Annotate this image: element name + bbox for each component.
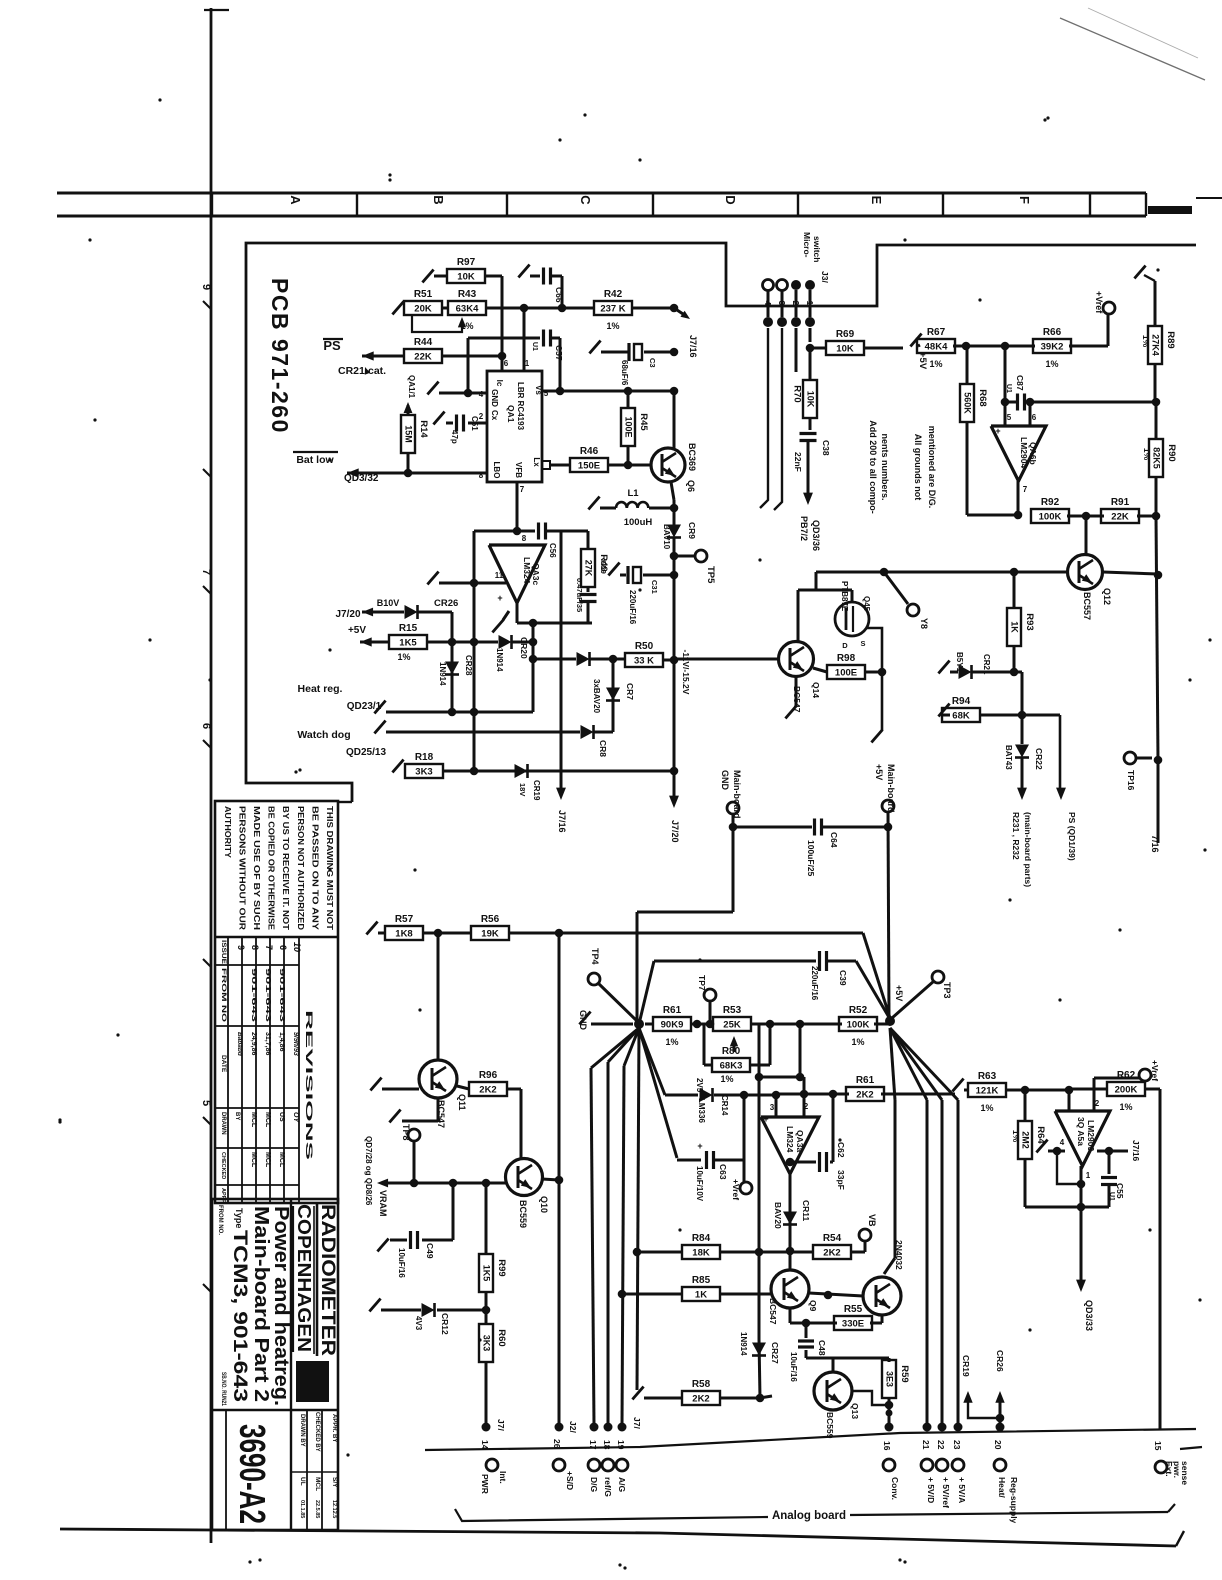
svg-text:QA3a: QA3a — [795, 1130, 805, 1152]
svg-text:901-643: 901-643 — [278, 968, 285, 1022]
svg-text:CR9: CR9 — [687, 522, 697, 539]
svg-text:Bababd: Bababd — [236, 1032, 243, 1057]
svg-text:R96: R96 — [479, 1070, 498, 1081]
svg-text:BC557: BC557 — [1082, 592, 1092, 620]
svg-text:Heat/: Heat/ — [997, 1477, 1007, 1498]
svg-text:S/Y: S/Y — [331, 1477, 338, 1488]
svg-text:Ic: Ic — [495, 380, 504, 387]
svg-text:23: 23 — [952, 1440, 962, 1450]
svg-text:10uF/16: 10uF/16 — [397, 1248, 406, 1278]
svg-text:2: 2 — [1095, 1099, 1100, 1108]
svg-text:MCL: MCL — [264, 1112, 271, 1128]
svg-text:J7/16: J7/16 — [557, 810, 567, 833]
svg-text:100K: 100K — [1039, 512, 1062, 523]
svg-text:C38: C38 — [821, 440, 831, 456]
svg-text:R67: R67 — [927, 327, 946, 338]
svg-text:MADE USE OF BY SUCH: MADE USE OF BY SUCH — [252, 806, 261, 930]
svg-text:nents numbers.: nents numbers. — [880, 433, 890, 500]
svg-text:J2/: J2/ — [568, 1421, 578, 1433]
svg-text:17: 17 — [588, 1440, 598, 1450]
svg-text:25K: 25K — [723, 1020, 741, 1031]
svg-text:C3: C3 — [648, 358, 657, 368]
svg-text:48K4: 48K4 — [925, 342, 948, 353]
svg-text:1K5: 1K5 — [482, 1265, 492, 1282]
svg-text:BAV10: BAV10 — [662, 524, 671, 550]
svg-text:TP3: TP3 — [942, 982, 952, 999]
svg-text:1%: 1% — [980, 1103, 993, 1113]
svg-text:CR20: CR20 — [519, 637, 529, 659]
svg-text:+S/D: +S/D — [565, 1471, 575, 1490]
svg-text:R63: R63 — [978, 1071, 997, 1082]
svg-text:+ 5V/D: + 5V/D — [926, 1477, 936, 1503]
svg-text:C87: C87 — [1015, 375, 1025, 391]
svg-text:68uF/6: 68uF/6 — [620, 360, 629, 386]
svg-text:TP4: TP4 — [590, 948, 600, 965]
svg-text:+5V: +5V — [917, 352, 928, 370]
svg-text:1%: 1% — [1119, 1102, 1132, 1112]
svg-text:10: 10 — [292, 942, 302, 952]
svg-text:Q6: Q6 — [686, 480, 696, 492]
svg-text:mentioned are D/G.: mentioned are D/G. — [927, 426, 937, 509]
svg-text:R61: R61 — [663, 1005, 682, 1016]
svg-text:3xBAV20: 3xBAV20 — [592, 679, 601, 714]
svg-text:10K: 10K — [457, 272, 475, 283]
svg-text:10uF/10V: 10uF/10V — [695, 1166, 704, 1202]
svg-text:19K: 19K — [481, 929, 499, 940]
svg-text:MCL: MCL — [278, 1152, 285, 1168]
svg-text:U1: U1 — [1108, 1192, 1115, 1201]
svg-text:10K: 10K — [836, 344, 854, 355]
svg-text:Q9: Q9 — [808, 1300, 818, 1312]
svg-text:C49: C49 — [425, 1243, 435, 1259]
svg-text:C55: C55 — [1115, 1183, 1125, 1199]
svg-text:C63: C63 — [718, 1164, 728, 1180]
svg-text:All grounds not: All grounds not — [913, 434, 923, 501]
svg-text:ISSUE: ISSUE — [220, 940, 227, 965]
svg-text:R90: R90 — [1166, 444, 1177, 461]
svg-text:R93: R93 — [1024, 613, 1035, 630]
svg-text:1,4,86: 1,4,86 — [278, 1032, 285, 1052]
svg-text:QD25/13: QD25/13 — [346, 747, 386, 758]
svg-text:J7/16: J7/16 — [688, 335, 698, 358]
svg-text:R68: R68 — [977, 389, 988, 406]
svg-text:82K5: 82K5 — [1152, 447, 1162, 469]
svg-text:Type: Type — [234, 1208, 244, 1228]
svg-text:TP7: TP7 — [697, 975, 707, 991]
svg-text:7: 7 — [200, 569, 212, 575]
svg-text:LM324: LM324 — [522, 557, 532, 584]
svg-text:1%: 1% — [665, 1037, 678, 1047]
svg-text:R18: R18 — [415, 752, 434, 763]
svg-text:C48: C48 — [817, 1340, 827, 1356]
svg-text:R94: R94 — [952, 696, 971, 707]
svg-text:10uF/16: 10uF/16 — [789, 1352, 798, 1382]
svg-text:Analog board: Analog board — [772, 1510, 846, 1522]
svg-text:14: 14 — [480, 1440, 490, 1450]
svg-text:22.5.85: 22.5.85 — [314, 1500, 320, 1518]
svg-text:(main-board parts): (main-board parts) — [1023, 812, 1033, 887]
svg-text:LM2903: LM2903 — [1086, 1120, 1096, 1151]
svg-text:27K: 27K — [584, 560, 594, 577]
svg-text:C59: C59 — [599, 560, 608, 574]
svg-text:QD3/36: QD3/36 — [811, 520, 821, 551]
svg-text:Int.: Int. — [498, 1471, 508, 1484]
svg-text:FROM NO: FROM NO — [220, 968, 227, 1022]
svg-text:1: 1 — [1086, 1171, 1091, 1180]
svg-text:BC547: BC547 — [768, 1298, 778, 1325]
svg-text:+: + — [497, 593, 502, 603]
svg-text:1K: 1K — [695, 1290, 707, 1301]
svg-text:PERSONS WITHOUT OUR: PERSONS WITHOUT OUR — [237, 806, 246, 930]
svg-text:Micro-: Micro- — [802, 232, 812, 258]
svg-text:1N914: 1N914 — [438, 662, 447, 686]
svg-text:CR12: CR12 — [440, 1313, 450, 1335]
svg-text:1K5: 1K5 — [399, 638, 417, 649]
svg-text:27K4: 27K4 — [1151, 334, 1161, 356]
svg-text:+: + — [763, 1114, 768, 1124]
svg-text:1%: 1% — [851, 1037, 864, 1047]
svg-text:CR21: CR21 — [982, 654, 991, 675]
svg-text:VFB: VFB — [514, 462, 523, 478]
svg-text:8: 8 — [250, 945, 260, 950]
svg-text:LBO: LBO — [492, 462, 501, 479]
svg-text:15M: 15M — [404, 425, 414, 443]
svg-text:237 K: 237 K — [600, 304, 625, 315]
svg-text:BY US TO RECEIVE IT. NOT: BY US TO RECEIVE IT. NOT — [281, 806, 290, 930]
svg-text:63K4: 63K4 — [456, 304, 479, 315]
svg-text:16: 16 — [882, 1441, 892, 1451]
svg-text:TP8: TP8 — [401, 1124, 411, 1141]
svg-text:C: C — [578, 195, 593, 205]
svg-text:Q10: Q10 — [539, 1196, 549, 1213]
svg-text:CR21: CR21 — [338, 365, 365, 377]
svg-text:CR27: CR27 — [770, 1342, 780, 1364]
svg-text:Q13: Q13 — [850, 1403, 860, 1419]
svg-text:1: 1 — [805, 301, 815, 306]
svg-text:R42: R42 — [604, 289, 623, 300]
svg-text:R44: R44 — [414, 337, 433, 348]
svg-text:LBR RC4193: LBR RC4193 — [516, 382, 525, 431]
svg-text:1%: 1% — [1045, 359, 1058, 369]
svg-text:220uF/16: 220uF/16 — [628, 590, 637, 625]
svg-text:901-643: 901-643 — [250, 968, 257, 1022]
svg-text:BY: BY — [234, 1112, 240, 1120]
svg-text:Lx: Lx — [532, 457, 541, 467]
svg-text:1: 1 — [525, 359, 530, 368]
svg-text:R99: R99 — [496, 1259, 507, 1276]
svg-text:D: D — [842, 641, 848, 650]
svg-text:R43: R43 — [458, 289, 477, 300]
svg-text:1%: 1% — [720, 1074, 733, 1084]
svg-text:1%: 1% — [1141, 335, 1151, 348]
svg-text:BE PASSED ON TO ANY: BE PASSED ON TO ANY — [310, 806, 319, 931]
svg-text:R50: R50 — [635, 641, 654, 652]
svg-text:R54: R54 — [823, 1233, 842, 1244]
svg-text:BE COPIED OR OTHERWISE: BE COPIED OR OTHERWISE — [267, 806, 276, 931]
svg-text:2: 2 — [791, 301, 801, 306]
svg-text:+ 5V/ref: + 5V/ref — [941, 1477, 951, 1508]
svg-text:11: 11 — [495, 571, 504, 580]
svg-text:CR28: CR28 — [464, 655, 473, 676]
svg-text:2K2: 2K2 — [856, 1090, 873, 1101]
svg-text:12.12.5: 12.12.5 — [331, 1500, 337, 1518]
svg-text:CR19: CR19 — [532, 780, 541, 801]
svg-text:R51: R51 — [414, 289, 433, 300]
svg-text:CR11: CR11 — [801, 1200, 811, 1222]
svg-text:R61: R61 — [856, 1075, 875, 1086]
svg-text:1%: 1% — [929, 359, 942, 369]
svg-text:18K: 18K — [692, 1248, 710, 1259]
svg-text:6: 6 — [1032, 413, 1037, 422]
svg-text:CR22: CR22 — [1034, 748, 1044, 770]
svg-text:BC369: BC369 — [687, 443, 697, 471]
svg-text:QA1/1: QA1/1 — [407, 375, 416, 399]
svg-text:2K2: 2K2 — [692, 1394, 709, 1405]
svg-text:B5Y1: B5Y1 — [955, 652, 964, 673]
svg-text:Conv.: Conv. — [890, 1477, 900, 1500]
svg-text:0.47uF/35: 0.47uF/35 — [575, 578, 584, 612]
svg-text:+5V: +5V — [348, 625, 366, 636]
svg-text:4V3: 4V3 — [414, 1316, 423, 1331]
svg-text:31,7,86: 31,7,86 — [264, 1032, 271, 1055]
svg-text:L1: L1 — [627, 488, 639, 499]
svg-text:+: + — [697, 1141, 702, 1151]
svg-text:cat.: cat. — [368, 365, 386, 377]
svg-text:BC559: BC559 — [518, 1200, 528, 1228]
svg-text:1%: 1% — [1011, 1130, 1021, 1143]
svg-text:9: 9 — [200, 284, 212, 290]
svg-text:Heat reg.: Heat reg. — [298, 683, 343, 695]
svg-text:COPENHAGEN: COPENHAGEN — [294, 1204, 314, 1352]
svg-text:22nF: 22nF — [793, 452, 803, 472]
svg-text:7: 7 — [1023, 485, 1028, 494]
svg-text:RADIOMETER: RADIOMETER — [317, 1204, 338, 1356]
svg-text:R58: R58 — [692, 1379, 711, 1390]
svg-text:Vs: Vs — [534, 385, 543, 395]
svg-text:20K: 20K — [414, 304, 432, 315]
svg-text:R85: R85 — [692, 1275, 711, 1286]
svg-text:R14: R14 — [418, 420, 429, 438]
svg-text:APPR. BY: APPR. BY — [331, 1414, 337, 1442]
svg-text:22K: 22K — [1111, 512, 1129, 523]
svg-text:J3/: J3/ — [820, 271, 830, 283]
svg-text:33 K: 33 K — [634, 656, 654, 667]
svg-text:C39: C39 — [838, 970, 848, 986]
svg-text:GND: GND — [578, 1010, 588, 1031]
svg-text:R89: R89 — [1165, 331, 1176, 348]
svg-text:FROM NO.: FROM NO. — [217, 1205, 223, 1235]
svg-text:R52: R52 — [849, 1005, 868, 1016]
svg-text:B10V: B10V — [377, 598, 400, 608]
svg-text:CR26: CR26 — [434, 598, 458, 609]
svg-text:22: 22 — [936, 1440, 946, 1450]
svg-text:6: 6 — [504, 359, 509, 368]
svg-text:R91: R91 — [1111, 497, 1130, 508]
svg-text:CR8: CR8 — [598, 740, 608, 757]
svg-text:Q12: Q12 — [1102, 588, 1112, 605]
svg-text:VB: VB — [867, 1214, 877, 1227]
svg-text:9: 9 — [236, 945, 246, 950]
svg-text:LM336: LM336 — [697, 1098, 706, 1123]
svg-text:F: F — [1017, 196, 1032, 204]
svg-text:U1: U1 — [531, 342, 538, 351]
svg-text:7: 7 — [264, 945, 274, 950]
svg-text:4: 4 — [1060, 1138, 1065, 1147]
svg-text:1%: 1% — [397, 652, 410, 662]
svg-text:THIS DRAWING MUST NOT: THIS DRAWING MUST NOT — [325, 806, 334, 930]
svg-text:REVISIONS: REVISIONS — [304, 1010, 314, 1160]
svg-text:TP5: TP5 — [705, 566, 716, 584]
svg-text:R15: R15 — [399, 623, 418, 634]
svg-text:3E3: 3E3 — [885, 1371, 895, 1387]
svg-text:CHECKED: CHECKED — [220, 1152, 226, 1179]
svg-text:1N914: 1N914 — [739, 1332, 748, 1356]
svg-text:100E: 100E — [624, 416, 634, 437]
svg-text:R45: R45 — [638, 413, 649, 431]
svg-text:901-643: 901-643 — [264, 968, 271, 1022]
svg-text:sense: sense — [1180, 1461, 1190, 1485]
svg-text:QA6b: QA6b — [1028, 442, 1038, 465]
svg-text:2M2: 2M2 — [1021, 1131, 1031, 1149]
svg-text:20: 20 — [993, 1440, 1003, 1450]
svg-text:150E: 150E — [578, 461, 600, 472]
svg-text:68K: 68K — [952, 711, 970, 722]
svg-text:GND: GND — [720, 770, 730, 791]
svg-text:S: S — [860, 639, 865, 648]
svg-text:CHECKED BY: CHECKED BY — [314, 1412, 320, 1452]
svg-text:100uH: 100uH — [624, 517, 653, 528]
svg-text:R66: R66 — [1043, 327, 1062, 338]
svg-text:MCL: MCL — [314, 1477, 321, 1491]
svg-text:26: 26 — [552, 1439, 562, 1449]
svg-text:DRAWN BY: DRAWN BY — [299, 1414, 305, 1447]
svg-text:Main-board Part 2: Main-board Part 2 — [250, 1206, 272, 1402]
svg-text:D/G: D/G — [589, 1477, 599, 1493]
svg-text:ref/G: ref/G — [603, 1477, 613, 1497]
svg-text:BAV20: BAV20 — [773, 1202, 783, 1229]
svg-text:4: 4 — [479, 390, 484, 399]
svg-text:Add 200 to all compo-: Add 200 to all compo- — [868, 420, 878, 514]
svg-text:8: 8 — [479, 471, 484, 480]
svg-text:MCL: MCL — [250, 1152, 257, 1168]
svg-text:UL: UL — [299, 1477, 306, 1486]
svg-text:1%: 1% — [1142, 448, 1152, 461]
svg-text:18: 18 — [602, 1440, 612, 1450]
svg-text:+5V: +5V — [874, 764, 884, 780]
svg-text:21: 21 — [921, 1440, 931, 1450]
svg-text:TCM3, 901-643: TCM3, 901-643 — [229, 1230, 250, 1402]
svg-text:330E: 330E — [842, 1319, 864, 1330]
svg-text:10K: 10K — [806, 391, 816, 408]
svg-text:CR19: CR19 — [961, 1355, 971, 1377]
svg-text:R97: R97 — [457, 257, 476, 268]
svg-text:QA3c: QA3c — [531, 563, 541, 585]
svg-text:100uF/25: 100uF/25 — [806, 840, 816, 877]
svg-text:SB.NO. RUN21: SB.NO. RUN21 — [220, 1372, 227, 1406]
svg-text:18V: 18V — [518, 783, 527, 796]
svg-text:R231 , R232: R231 , R232 — [1011, 812, 1021, 860]
svg-text:A: A — [288, 195, 303, 205]
svg-text:R57: R57 — [395, 914, 414, 925]
svg-text:R80: R80 — [722, 1046, 741, 1057]
svg-text:J7/20: J7/20 — [335, 609, 360, 620]
svg-text:APPR: APPR — [220, 1188, 226, 1203]
svg-text:CR14: CR14 — [720, 1095, 729, 1116]
svg-text:Y8: Y8 — [919, 618, 929, 629]
svg-text:R53: R53 — [723, 1005, 742, 1016]
svg-text:01.1.85: 01.1.85 — [299, 1500, 305, 1518]
svg-text:3Q A5a: 3Q A5a — [1076, 1117, 1086, 1146]
svg-text:D: D — [723, 195, 738, 204]
svg-text:MCL: MCL — [250, 1112, 257, 1128]
svg-text:3: 3 — [777, 301, 787, 306]
svg-text:R55: R55 — [844, 1304, 863, 1315]
svg-text:Main-board: Main-board — [886, 764, 896, 813]
svg-text:QD3/32: QD3/32 — [344, 473, 379, 484]
svg-text:100E: 100E — [835, 668, 857, 679]
svg-text:Q14: Q14 — [811, 682, 821, 698]
svg-text:PS: PS — [323, 338, 341, 353]
svg-text:Q45: Q45 — [862, 596, 871, 612]
svg-text:R60: R60 — [496, 1329, 507, 1346]
svg-text:2: 2 — [479, 412, 484, 421]
svg-text:LM324: LM324 — [785, 1126, 795, 1153]
svg-text:R46: R46 — [580, 446, 599, 457]
svg-text:A/G: A/G — [617, 1477, 627, 1493]
svg-text:B: B — [431, 195, 446, 204]
svg-text:C62: C62 — [836, 1142, 846, 1158]
svg-text:DATE: DATE — [220, 1055, 227, 1073]
svg-text:PWR: PWR — [480, 1474, 490, 1494]
svg-text:47p: 47p — [450, 430, 459, 444]
svg-text:+Vref: +Vref — [731, 1179, 741, 1200]
svg-text:19: 19 — [616, 1440, 626, 1450]
svg-text:7: 7 — [520, 485, 525, 494]
svg-text:QD7/28 og QD8/26: QD7/28 og QD8/26 — [364, 1136, 373, 1206]
svg-text:200K: 200K — [1115, 1085, 1138, 1096]
svg-text:QD3/33: QD3/33 — [1084, 1300, 1094, 1331]
svg-text:OY: OY — [292, 1112, 299, 1123]
svg-text:J7/: J7/ — [632, 1417, 642, 1429]
svg-text:US: US — [278, 1112, 285, 1122]
svg-text:3690-A2: 3690-A2 — [232, 1424, 273, 1524]
svg-text:8: 8 — [522, 534, 527, 543]
svg-text:+5V: +5V — [894, 985, 904, 1001]
svg-text:100K: 100K — [847, 1020, 870, 1031]
svg-text:24,9,86: 24,9,86 — [250, 1032, 257, 1055]
svg-text:3: 3 — [770, 1103, 775, 1112]
svg-text:R59: R59 — [899, 1365, 910, 1382]
svg-text:6: 6 — [200, 723, 212, 729]
svg-text:2K2: 2K2 — [823, 1248, 840, 1259]
svg-text:220uF/16: 220uF/16 — [810, 966, 819, 1001]
svg-text:+Vref: +Vref — [1150, 1060, 1160, 1081]
svg-text:R56: R56 — [481, 914, 500, 925]
svg-text:VRAM: VRAM — [378, 1190, 388, 1217]
svg-text:2V5: 2V5 — [695, 1078, 704, 1093]
svg-text:1K8: 1K8 — [395, 929, 412, 940]
svg-text:3K3: 3K3 — [482, 1335, 492, 1352]
svg-text:PERSON NOT AUTHORIZED: PERSON NOT AUTHORIZED — [296, 806, 305, 930]
svg-text:C31: C31 — [650, 580, 659, 594]
svg-text:560K: 560K — [963, 392, 973, 414]
svg-text:C56: C56 — [548, 543, 557, 558]
svg-text:4: 4 — [763, 301, 773, 306]
svg-text:C51: C51 — [470, 416, 479, 431]
svg-text:33pF: 33pF — [836, 1170, 846, 1190]
svg-text:6: 6 — [278, 945, 288, 950]
svg-text:DRAWN: DRAWN — [220, 1112, 226, 1135]
